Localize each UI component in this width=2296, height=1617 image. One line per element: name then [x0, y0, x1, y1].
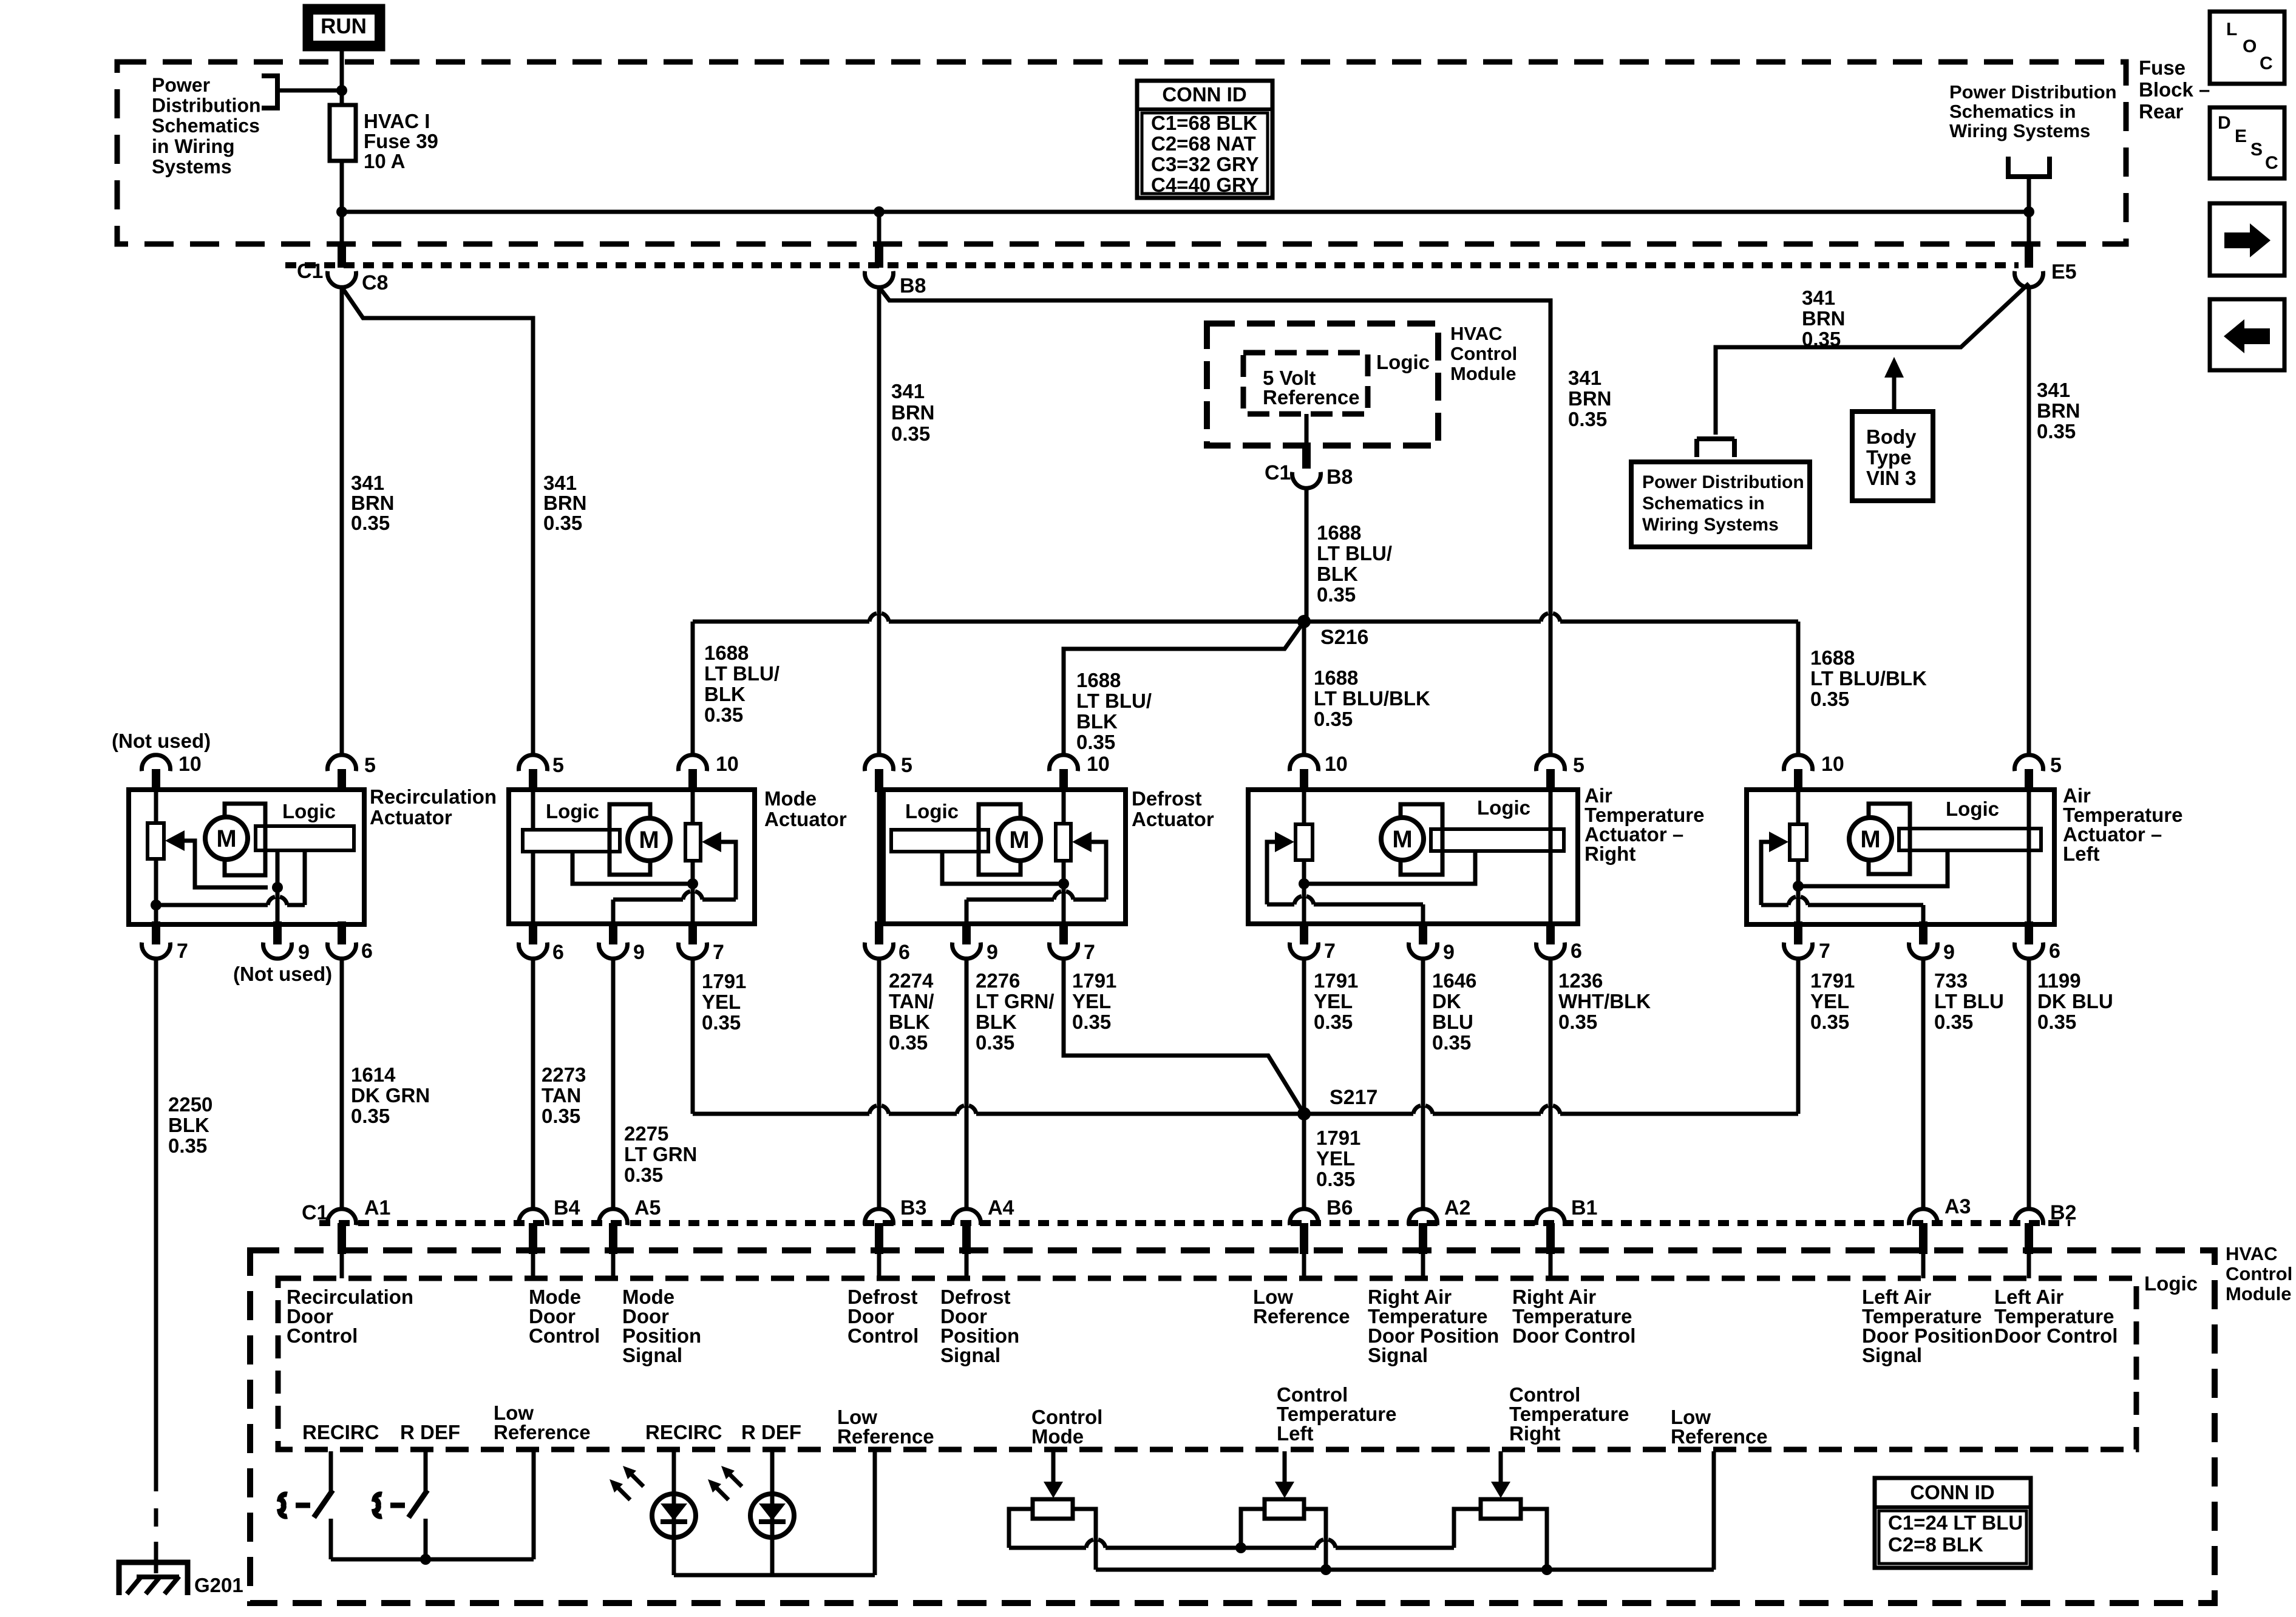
connector A5 [599, 1196, 661, 1254]
label 341 BRN 0.35 (branch to air temp right) [1568, 367, 1612, 430]
wire A5 into module [611, 1254, 616, 1278]
svg-text:0.35: 0.35 [889, 1031, 928, 1054]
label Defrost Actuator [1132, 787, 1214, 830]
svg-text:Fuse: Fuse [2139, 56, 2186, 79]
svg-text:A4: A4 [988, 1196, 1014, 1219]
label Low Reference (B6) [1253, 1286, 1350, 1327]
svg-text:Actuator: Actuator [370, 806, 452, 829]
air temp right node to logic wire [1304, 852, 1475, 884]
svg-text:0.35: 0.35 [1568, 408, 1607, 430]
svg-text:1791: 1791 [1316, 1127, 1360, 1149]
defrost actuator pin 10 [1050, 753, 1110, 792]
defrost actuator pin 7 [1050, 921, 1095, 964]
potentiometer Control Mode [1033, 1451, 1073, 1519]
svg-text:Reference: Reference [1253, 1305, 1350, 1327]
wire 341 BRN C1 to recirculation actuator pin 5 [340, 287, 344, 755]
svg-text:Power Distribution: Power Distribution [1642, 472, 1804, 492]
node junction above fuse [336, 85, 347, 96]
wire RUN to fuse block [340, 51, 344, 92]
svg-text:C1: C1 [1265, 461, 1291, 484]
wire B3 into module [877, 1254, 881, 1278]
svg-text:6: 6 [1571, 940, 1582, 963]
svg-text:0.35: 0.35 [702, 1011, 741, 1034]
svg-text:DK BLU: DK BLU [2037, 990, 2113, 1012]
svg-text:BRN: BRN [1802, 307, 1846, 330]
label Right Air Temperature Door Position Signal [1368, 1286, 1499, 1366]
label Air Temperature Actuator Right [1584, 784, 1704, 865]
wire pot low reference bus [1096, 1451, 1714, 1570]
bracket to power distribution schematics (middle right) [1697, 439, 1734, 457]
svg-text:0.35: 0.35 [1076, 731, 1115, 753]
recirculation actuator pin 10 (not used) [112, 730, 211, 792]
svg-text:M: M [639, 827, 659, 853]
label 1688 LT BLU/BLK 0.35 (air temp right pin 10) [1314, 666, 1430, 730]
svg-text:BRN: BRN [1568, 387, 1612, 410]
svg-text:Distribution: Distribution [152, 95, 261, 117]
svg-text:TAN/: TAN/ [889, 990, 934, 1012]
wire bracket to fuse node [280, 89, 342, 93]
svg-text:BLK: BLK [1076, 710, 1118, 733]
svg-text:1646: 1646 [1432, 969, 1476, 992]
label 341 BRN 0.35 (C1 wire) [351, 472, 395, 534]
svg-text:BRN: BRN [351, 492, 395, 514]
connector B6 [1290, 1196, 1353, 1254]
svg-text:C3=32 GRY: C3=32 GRY [1151, 153, 1259, 175]
svg-text:10 A: 10 A [364, 150, 405, 172]
LED RECIRC indicator [610, 1451, 696, 1575]
svg-text:Reference: Reference [1671, 1425, 1768, 1448]
svg-text:0.35: 0.35 [891, 422, 930, 445]
svg-text:2250: 2250 [168, 1093, 212, 1116]
wire 2274 TAN/BLK defrost pin 6 to B3 [877, 959, 881, 1209]
air temp right motor [1381, 804, 1442, 875]
svg-text:2276: 2276 [976, 969, 1020, 992]
wire S216 bus right leg to air temp left actuator pin 10 [1796, 622, 1801, 755]
node defrost internal [1058, 878, 1069, 889]
wire 2273 TAN mode pin 6 to B4 [531, 959, 535, 1209]
label Control Temperature Right [1509, 1383, 1629, 1445]
label 341 BRN 0.35 (B8 wire) [891, 380, 935, 445]
label 2276 LT GRN/ BLK 0.35 [976, 969, 1055, 1054]
svg-text:5: 5 [552, 754, 564, 777]
label G201 [194, 1574, 243, 1596]
air temp right actuator box outline [1248, 790, 1578, 924]
svg-text:10: 10 [178, 753, 202, 776]
svg-text:9: 9 [1943, 941, 1955, 964]
wire 1791 YEL mode pin 7 to S217 bus [691, 959, 695, 1114]
svg-text:0.35: 0.35 [1317, 583, 1356, 606]
svg-text:0.35: 0.35 [1934, 1011, 1973, 1033]
label Control Temperature Left [1277, 1383, 1396, 1445]
connector A4 [952, 1196, 1014, 1254]
svg-text:Logic: Logic [1946, 798, 1999, 820]
main power wire from fuse to E5 [342, 210, 2029, 214]
svg-text:CONN ID: CONN ID [1162, 83, 1246, 106]
wire S216 branch to defrost actuator pin 10 [1064, 622, 1304, 755]
wire A1 into module [340, 1254, 344, 1278]
svg-text:9: 9 [1443, 941, 1455, 964]
recirculation potentiometer [148, 792, 164, 921]
label R DEF (LED) [741, 1421, 801, 1443]
label Recirculation Actuator [370, 785, 497, 829]
ground symbol G201 [119, 1562, 188, 1595]
label HVAC Control Module (top) [1450, 323, 1517, 384]
recirculation wiper feedback wire [184, 841, 268, 887]
connector C1/A1 [302, 1196, 390, 1254]
defrost wiper feedback wire [966, 842, 1106, 921]
svg-text:1236: 1236 [1558, 969, 1603, 992]
air temp left actuator box outline [1747, 790, 2054, 924]
connector A2 [1409, 1196, 1471, 1254]
wire 1791 YEL S217 horizontal bus [693, 1106, 1798, 1114]
air temp left pin 9 [1909, 921, 1955, 964]
svg-text:7: 7 [177, 940, 188, 963]
svg-text:341: 341 [543, 472, 577, 494]
mode pot wiper arrow [702, 832, 721, 852]
node junction at E5 top [2023, 206, 2034, 217]
svg-text:2273: 2273 [542, 1063, 586, 1086]
svg-text:LT BLU/BLK: LT BLU/BLK [1810, 667, 1927, 690]
label Logic (bottom module) [2144, 1272, 2198, 1295]
air temp left pin5 to pin6 wire [2027, 792, 2031, 921]
svg-text:Logic: Logic [2144, 1272, 2198, 1295]
svg-text:5: 5 [364, 754, 376, 777]
svg-text:E: E [2235, 126, 2247, 146]
svg-text:Logic: Logic [546, 800, 599, 822]
label Defrost Door Position Signal [940, 1286, 1019, 1366]
label Recirculation Door Control [287, 1286, 413, 1347]
svg-text:C2=68 NAT: C2=68 NAT [1151, 132, 1256, 155]
svg-text:C: C [2265, 153, 2278, 173]
svg-text:Fuse 39: Fuse 39 [364, 130, 438, 152]
air temp right pin 9 [1409, 921, 1455, 964]
svg-text:G201: G201 [194, 1574, 243, 1596]
svg-text:Defrost: Defrost [1132, 787, 1202, 810]
air temp right pin 10 [1290, 753, 1348, 792]
svg-text:RECIRC: RECIRC [645, 1421, 722, 1443]
svg-text:B2: B2 [2050, 1201, 2076, 1224]
svg-text:Right: Right [1584, 842, 1635, 865]
label Mode Actuator [764, 787, 847, 830]
label Low Reference (switch) [494, 1402, 591, 1443]
wire 1791 YEL S217 to B6 [1302, 1114, 1306, 1209]
svg-text:Reference: Reference [494, 1421, 591, 1443]
air temp right pin 6 [1537, 921, 1582, 963]
svg-text:WHT/BLK: WHT/BLK [1558, 990, 1651, 1012]
svg-text:HVAC I: HVAC I [364, 110, 430, 132]
recirculation logic to node wire [276, 850, 280, 887]
svg-text:S216: S216 [1320, 626, 1368, 649]
label 1791 YEL 0.35 (air temp right pin 7) [1314, 969, 1358, 1033]
svg-text:DK: DK [1432, 990, 1461, 1012]
svg-text:LT GRN/: LT GRN/ [976, 990, 1055, 1012]
arrow box right [2210, 203, 2284, 276]
svg-text:YEL: YEL [702, 991, 741, 1013]
svg-text:BLU: BLU [1432, 1011, 1473, 1033]
recirculation logic bar [256, 800, 354, 850]
air temp left pot wiper arrow [1769, 832, 1788, 852]
wire 2275 LT GRN mode pin 9 to A5 [611, 959, 616, 1209]
connector E5 fuse block [2015, 244, 2077, 287]
svg-text:C1: C1 [302, 1201, 328, 1224]
svg-text:Schematics in: Schematics in [1642, 493, 1765, 514]
svg-text:B3: B3 [900, 1196, 926, 1219]
wire control temp right pot terminals [1454, 1509, 1547, 1570]
label 341 BRN 0.35 (branch wire) [1802, 286, 1846, 350]
label 1688 LT BLU/ BLK 0.35 (module wire) [1317, 521, 1392, 606]
label Power Distribution Schematics in Wiring Systems (left) [152, 74, 261, 177]
svg-text:0.35: 0.35 [1314, 708, 1353, 730]
svg-text:0.35: 0.35 [543, 512, 582, 534]
svg-text:R DEF: R DEF [400, 1421, 460, 1443]
label Left Air Temperature Door Position Signal [1862, 1286, 1993, 1366]
wire 1646 DK BLU air temp right pin 9 to A2 [1421, 959, 1425, 1209]
svg-text:7: 7 [1819, 940, 1830, 963]
air temp left pin 10 [1784, 753, 1844, 792]
wire 1236 WHT/BLK air temp right pin 6 to B1 [1549, 959, 1553, 1209]
node splice S216 [1297, 615, 1368, 649]
svg-text:RECIRC: RECIRC [302, 1421, 379, 1443]
air temp left wiper feedback wire [1761, 842, 1923, 921]
box label Power Distribution Schematics in Wiring Systems (boxed) [1631, 462, 1810, 547]
mode actuator pin 6 [519, 921, 564, 964]
LOC reference box [2210, 12, 2284, 84]
svg-text:6: 6 [2049, 940, 2060, 963]
svg-text:7: 7 [713, 941, 724, 964]
svg-text:0.35: 0.35 [351, 1105, 390, 1127]
svg-text:0.35: 0.35 [1072, 1011, 1111, 1033]
label 1236 WHT/BLK 0.35 [1558, 969, 1651, 1033]
svg-text:Left: Left [2063, 842, 2100, 865]
svg-text:S: S [2250, 140, 2263, 160]
svg-text:0.35: 0.35 [624, 1164, 663, 1186]
mode actuator pin 10 [679, 753, 739, 792]
svg-text:0.35: 0.35 [168, 1134, 207, 1157]
svg-text:C4=40 GRY: C4=40 GRY [1151, 174, 1259, 196]
label 2274 TAN/ BLK 0.35 [889, 969, 934, 1054]
svg-text:7: 7 [1324, 940, 1336, 963]
wire B1 into module [1549, 1254, 1553, 1278]
wire control mode pot terminals [1009, 1509, 1096, 1570]
svg-text:Left: Left [1277, 1422, 1314, 1445]
svg-text:10: 10 [1821, 753, 1844, 776]
svg-text:1688: 1688 [1810, 646, 1855, 669]
svg-text:1791: 1791 [1072, 969, 1116, 992]
label 1688 LT BLU/ BLK 0.35 (defrost pin 10) [1076, 669, 1152, 753]
node splice S217 [1297, 1086, 1377, 1120]
svg-text:Control: Control [529, 1324, 600, 1347]
air temp left potentiometer [1790, 792, 1807, 921]
LED R DEF indicator [708, 1451, 794, 1575]
node mode internal [687, 878, 698, 889]
svg-text:1791: 1791 [1810, 969, 1855, 992]
air temp right pin5 to pin6 wire [1549, 792, 1553, 921]
wire 1688 LT BLU/BLK connector to S216 [1305, 488, 1309, 622]
recirculation actuator pin 5 [328, 754, 376, 792]
svg-text:Actuator: Actuator [1132, 808, 1214, 830]
recirculation actuator pin 9 (not used) [233, 921, 332, 985]
wire LED low reference [674, 1451, 875, 1575]
svg-text:7: 7 [1084, 941, 1095, 964]
connector C1/B8 hvac control module [1265, 446, 1353, 489]
wire 1688 S216 horizontal bus [693, 614, 1798, 622]
svg-text:10: 10 [1087, 753, 1110, 776]
svg-text:Module: Module [1450, 363, 1517, 384]
recirculation motor [205, 804, 265, 875]
label 733 LT BLU 0.35 [1934, 969, 2004, 1033]
svg-text:2275: 2275 [624, 1122, 668, 1145]
svg-text:Wiring Systems: Wiring Systems [1949, 120, 2090, 141]
connector C1/C8 fuse block [297, 244, 388, 294]
svg-text:LT BLU/: LT BLU/ [704, 662, 779, 685]
svg-text:Schematics: Schematics [152, 115, 260, 137]
svg-text:RUN: RUN [321, 15, 367, 38]
wire S216 to air temp right actuator pin 10 [1302, 622, 1306, 755]
svg-text:Actuator: Actuator [764, 808, 847, 830]
svg-text:M: M [1009, 827, 1029, 853]
svg-text:5: 5 [1573, 754, 1584, 777]
svg-text:5: 5 [901, 754, 912, 777]
recirculation pot wiper arrow [165, 830, 185, 851]
wire 341 BRN C8 to mode actuator pin 5 [342, 287, 533, 755]
air temp left logic bar [1899, 798, 2041, 850]
svg-text:TAN: TAN [542, 1084, 581, 1107]
wire switches low reference [331, 1451, 534, 1559]
svg-text:Mode: Mode [764, 787, 817, 810]
svg-text:6: 6 [898, 941, 910, 964]
svg-text:Power: Power [152, 74, 210, 96]
svg-text:10: 10 [716, 753, 739, 776]
label Right Air Temperature Door Control [1512, 1286, 1635, 1347]
svg-text:Logic: Logic [905, 800, 959, 822]
svg-text:1614: 1614 [351, 1063, 396, 1086]
label HVAC I Fuse 39 10 A [364, 110, 438, 172]
svg-text:A5: A5 [634, 1196, 661, 1219]
mode actuator pin 9 [599, 921, 645, 964]
defrost potentiometer [1056, 792, 1071, 921]
svg-text:C2=8 BLK: C2=8 BLK [1888, 1533, 1983, 1556]
label 1614 DK GRN 0.35 [351, 1063, 430, 1127]
label Logic (top module) [1376, 351, 1430, 373]
svg-text:1791: 1791 [1314, 969, 1358, 992]
svg-text:0.35: 0.35 [2037, 420, 2076, 442]
svg-text:BRN: BRN [543, 492, 587, 514]
svg-text:2274: 2274 [889, 969, 934, 992]
svg-text:Signal: Signal [1368, 1344, 1428, 1366]
svg-text:LT GRN: LT GRN [624, 1143, 697, 1165]
wire 1199 DK BLU air temp left pin 6 to B2 [2027, 959, 2031, 1209]
node recirculation internal [272, 882, 283, 893]
defrost actuator pin 9 [952, 921, 997, 964]
switch RECIRC [280, 1451, 333, 1559]
svg-text:Schematics in: Schematics in [1949, 101, 2076, 122]
svg-text:Logic: Logic [282, 800, 336, 822]
air temp left pin 5 [2015, 754, 2062, 792]
svg-text:Type: Type [1866, 446, 1912, 469]
wire 341 BRN B8 to defrost actuator pin 5 and branch [879, 287, 1550, 755]
air temp left node to logic wire [1798, 850, 1948, 886]
svg-text:0.35: 0.35 [1558, 1011, 1597, 1033]
svg-text:YEL: YEL [1314, 990, 1353, 1012]
svg-text:LT BLU: LT BLU [1934, 990, 2004, 1012]
label Defrost Door Control [847, 1286, 919, 1347]
svg-text:C8: C8 [362, 271, 388, 294]
Body Type VIN 3 box [1852, 412, 1933, 501]
svg-text:Control: Control [287, 1324, 358, 1347]
svg-text:341: 341 [351, 472, 384, 494]
svg-text:HVAC: HVAC [1450, 323, 1503, 344]
wire 1614 DK GRN recirculation pin 6 to A1 [340, 959, 344, 1209]
svg-text:M: M [1860, 826, 1880, 853]
svg-text:9: 9 [633, 941, 645, 964]
node junction at fuse output [336, 206, 347, 217]
connector B3 [865, 1196, 927, 1254]
svg-text:BRN: BRN [2037, 399, 2080, 422]
label 5 Volt Reference [1263, 367, 1360, 408]
svg-text:Door Control: Door Control [1512, 1324, 1635, 1347]
svg-text:341: 341 [1802, 286, 1835, 309]
svg-text:Reference: Reference [837, 1425, 934, 1448]
svg-text:BLK: BLK [889, 1011, 930, 1033]
fuse F39 HVAC I 10A [330, 90, 356, 212]
air temp right logic bar [1431, 796, 1564, 851]
svg-text:0.35: 0.35 [1314, 1011, 1353, 1033]
arrow box left [2210, 299, 2284, 370]
label Mode Door Position Signal [622, 1286, 701, 1366]
wire control temp left pot terminals [1241, 1509, 1326, 1570]
air temp right pot wiper arrow [1275, 832, 1294, 852]
connector B4 [519, 1196, 580, 1254]
node air temp left internal [1793, 881, 1804, 892]
svg-text:0.35: 0.35 [1810, 1011, 1849, 1033]
wire node to E5 connector [2027, 212, 2031, 246]
wire 2250 BLK recirculation pin 7 to ground [154, 959, 158, 1573]
recirculation low reference internal wire [151, 850, 305, 910]
svg-text:Block –: Block – [2139, 78, 2210, 101]
svg-text:Logic: Logic [1376, 351, 1430, 373]
svg-text:in Wiring: in Wiring [152, 135, 235, 157]
wire B2 into module [2027, 1254, 2031, 1278]
svg-text:LT BLU/: LT BLU/ [1317, 542, 1392, 564]
svg-text:A2: A2 [1444, 1196, 1470, 1219]
potentiometer Control Temperature Right [1481, 1451, 1521, 1519]
svg-text:5: 5 [2050, 754, 2062, 777]
svg-text:Signal: Signal [1862, 1344, 1922, 1366]
air temp left pin 7 [1784, 921, 1830, 963]
mode actuator pin 5 [519, 754, 564, 792]
wire A4 into module [965, 1254, 969, 1278]
label 1791 YEL 0.35 (B6 wire) [1316, 1127, 1360, 1190]
svg-text:Control: Control [847, 1324, 919, 1347]
svg-text:Logic: Logic [1477, 796, 1530, 819]
svg-text:VIN 3: VIN 3 [1866, 467, 1917, 489]
node switch junction [420, 1554, 431, 1565]
5 volt reference dashed box [1243, 353, 1368, 414]
wire fuse output down to C1 [340, 212, 344, 246]
svg-text:BLK: BLK [1317, 563, 1358, 585]
wire 5 volt reference to connector [1305, 414, 1309, 446]
label 2273 TAN 0.35 [542, 1063, 586, 1127]
label Fuse Block - Rear [2139, 56, 2210, 123]
label HVAC Control Module (bottom) [2226, 1243, 2292, 1304]
svg-text:0.35: 0.35 [542, 1105, 580, 1127]
svg-text:Signal: Signal [940, 1344, 1000, 1366]
arrow Body Type VIN 3 pointer [1884, 357, 1904, 411]
label Mode Door Control [529, 1286, 600, 1347]
CONN ID table fuse block [1137, 81, 1272, 198]
svg-text:DK GRN: DK GRN [351, 1084, 430, 1107]
label Control Mode [1031, 1406, 1102, 1448]
